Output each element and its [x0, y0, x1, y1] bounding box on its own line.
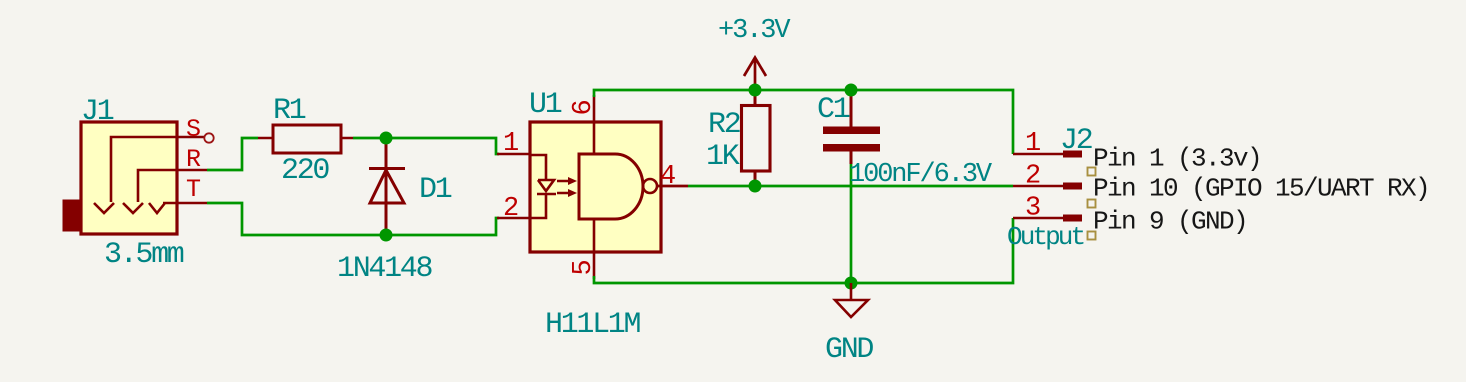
power +3.3V symbol	[744, 58, 766, 91]
svg-text:5: 5	[569, 260, 599, 275]
svg-text:6: 6	[569, 100, 599, 115]
J1 pin S open circle	[204, 133, 213, 142]
text anchor square 2	[1088, 200, 1096, 208]
connector J2 pin 2	[1013, 185, 1063, 188]
J1 pin R stub	[177, 169, 207, 172]
svg-text:2: 2	[503, 194, 518, 224]
connector J1 body	[81, 122, 177, 234]
J1 pin T stub	[177, 202, 207, 205]
svg-text:Pin 1 (3.3v): Pin 1 (3.3v)	[1093, 144, 1261, 174]
text anchor square 1	[1088, 168, 1096, 176]
svg-text:4: 4	[660, 162, 675, 192]
optocoupler U1 body	[530, 122, 661, 252]
svg-text:+3.3V: +3.3V	[718, 16, 791, 46]
ground symbol	[835, 283, 868, 317]
svg-text:100nF/6.3V: 100nF/6.3V	[849, 160, 993, 190]
svg-text:D1: D1	[419, 173, 452, 207]
svg-text:C1: C1	[817, 93, 850, 127]
svg-text:Output: Output	[1007, 222, 1084, 252]
svg-text:J2: J2	[1060, 124, 1092, 158]
wire R1 to U1 pin1	[353, 138, 499, 154]
svg-text:1: 1	[1025, 129, 1040, 159]
wire middle rail U1 pin4 to J2 pin2	[688, 185, 1013, 188]
wire bottom rail	[594, 218, 1013, 283]
U1 pin 5 line	[593, 219, 596, 279]
resistor R2	[754, 90, 757, 186]
svg-text:R2: R2	[708, 108, 740, 142]
capacitor C1	[850, 90, 853, 127]
connector J2 pin 3	[1013, 217, 1063, 220]
junction node GND rail	[845, 277, 858, 290]
svg-text:GND: GND	[825, 333, 873, 367]
J1 sleeve block	[63, 200, 81, 231]
junction node C1 top	[845, 84, 858, 97]
wire top rail	[594, 90, 1013, 154]
svg-text:220: 220	[281, 154, 329, 188]
svg-text:Pin 9 (GND): Pin 9 (GND)	[1093, 207, 1247, 237]
svg-text:1: 1	[503, 129, 518, 159]
U1 pin 1 stub	[497, 153, 530, 156]
wire J1.T to bottom-left net	[207, 203, 499, 235]
svg-text:H11L1M: H11L1M	[545, 308, 641, 342]
J1 pin S stub	[177, 136, 204, 139]
U1 gate bubble	[643, 179, 657, 193]
text anchor square 3	[1088, 232, 1096, 240]
wire C1 to GND	[850, 164, 853, 283]
junction node D1 bottom	[380, 229, 393, 242]
J1 contact T	[149, 203, 177, 213]
svg-text:3.5mm: 3.5mm	[104, 238, 184, 272]
U1 LED arrows	[557, 181, 569, 193]
junction node R2 bottom	[749, 180, 762, 193]
J1 contact S	[94, 137, 177, 213]
connector J2 pin 1	[1013, 153, 1063, 156]
diode D1	[369, 139, 405, 236]
svg-text:1K: 1K	[706, 140, 740, 174]
svg-text:S: S	[186, 115, 201, 144]
svg-text:2: 2	[1025, 162, 1040, 192]
svg-text:U1: U1	[529, 88, 562, 122]
svg-text:1N4148: 1N4148	[337, 252, 433, 286]
U1 LED	[530, 155, 556, 218]
junction node R2 top	[749, 84, 762, 97]
svg-text:R: R	[186, 145, 201, 174]
svg-text:J1: J1	[81, 95, 114, 129]
svg-text:3: 3	[1025, 194, 1040, 224]
junction node R1/D1	[380, 132, 393, 145]
J1 contact R	[123, 170, 177, 213]
svg-text:Pin 10 (GPIO 15/UART RX): Pin 10 (GPIO 15/UART RX)	[1093, 174, 1429, 204]
U1 pin 2 stub	[497, 217, 530, 220]
resistor R1	[258, 137, 353, 140]
U1 gate	[579, 154, 643, 219]
svg-text:T: T	[186, 175, 201, 204]
wire J1.R to R1	[207, 138, 258, 170]
U1 pin 6 line	[593, 95, 596, 154]
U1 pin 4 stub	[657, 185, 688, 188]
svg-text:R1: R1	[273, 94, 306, 128]
